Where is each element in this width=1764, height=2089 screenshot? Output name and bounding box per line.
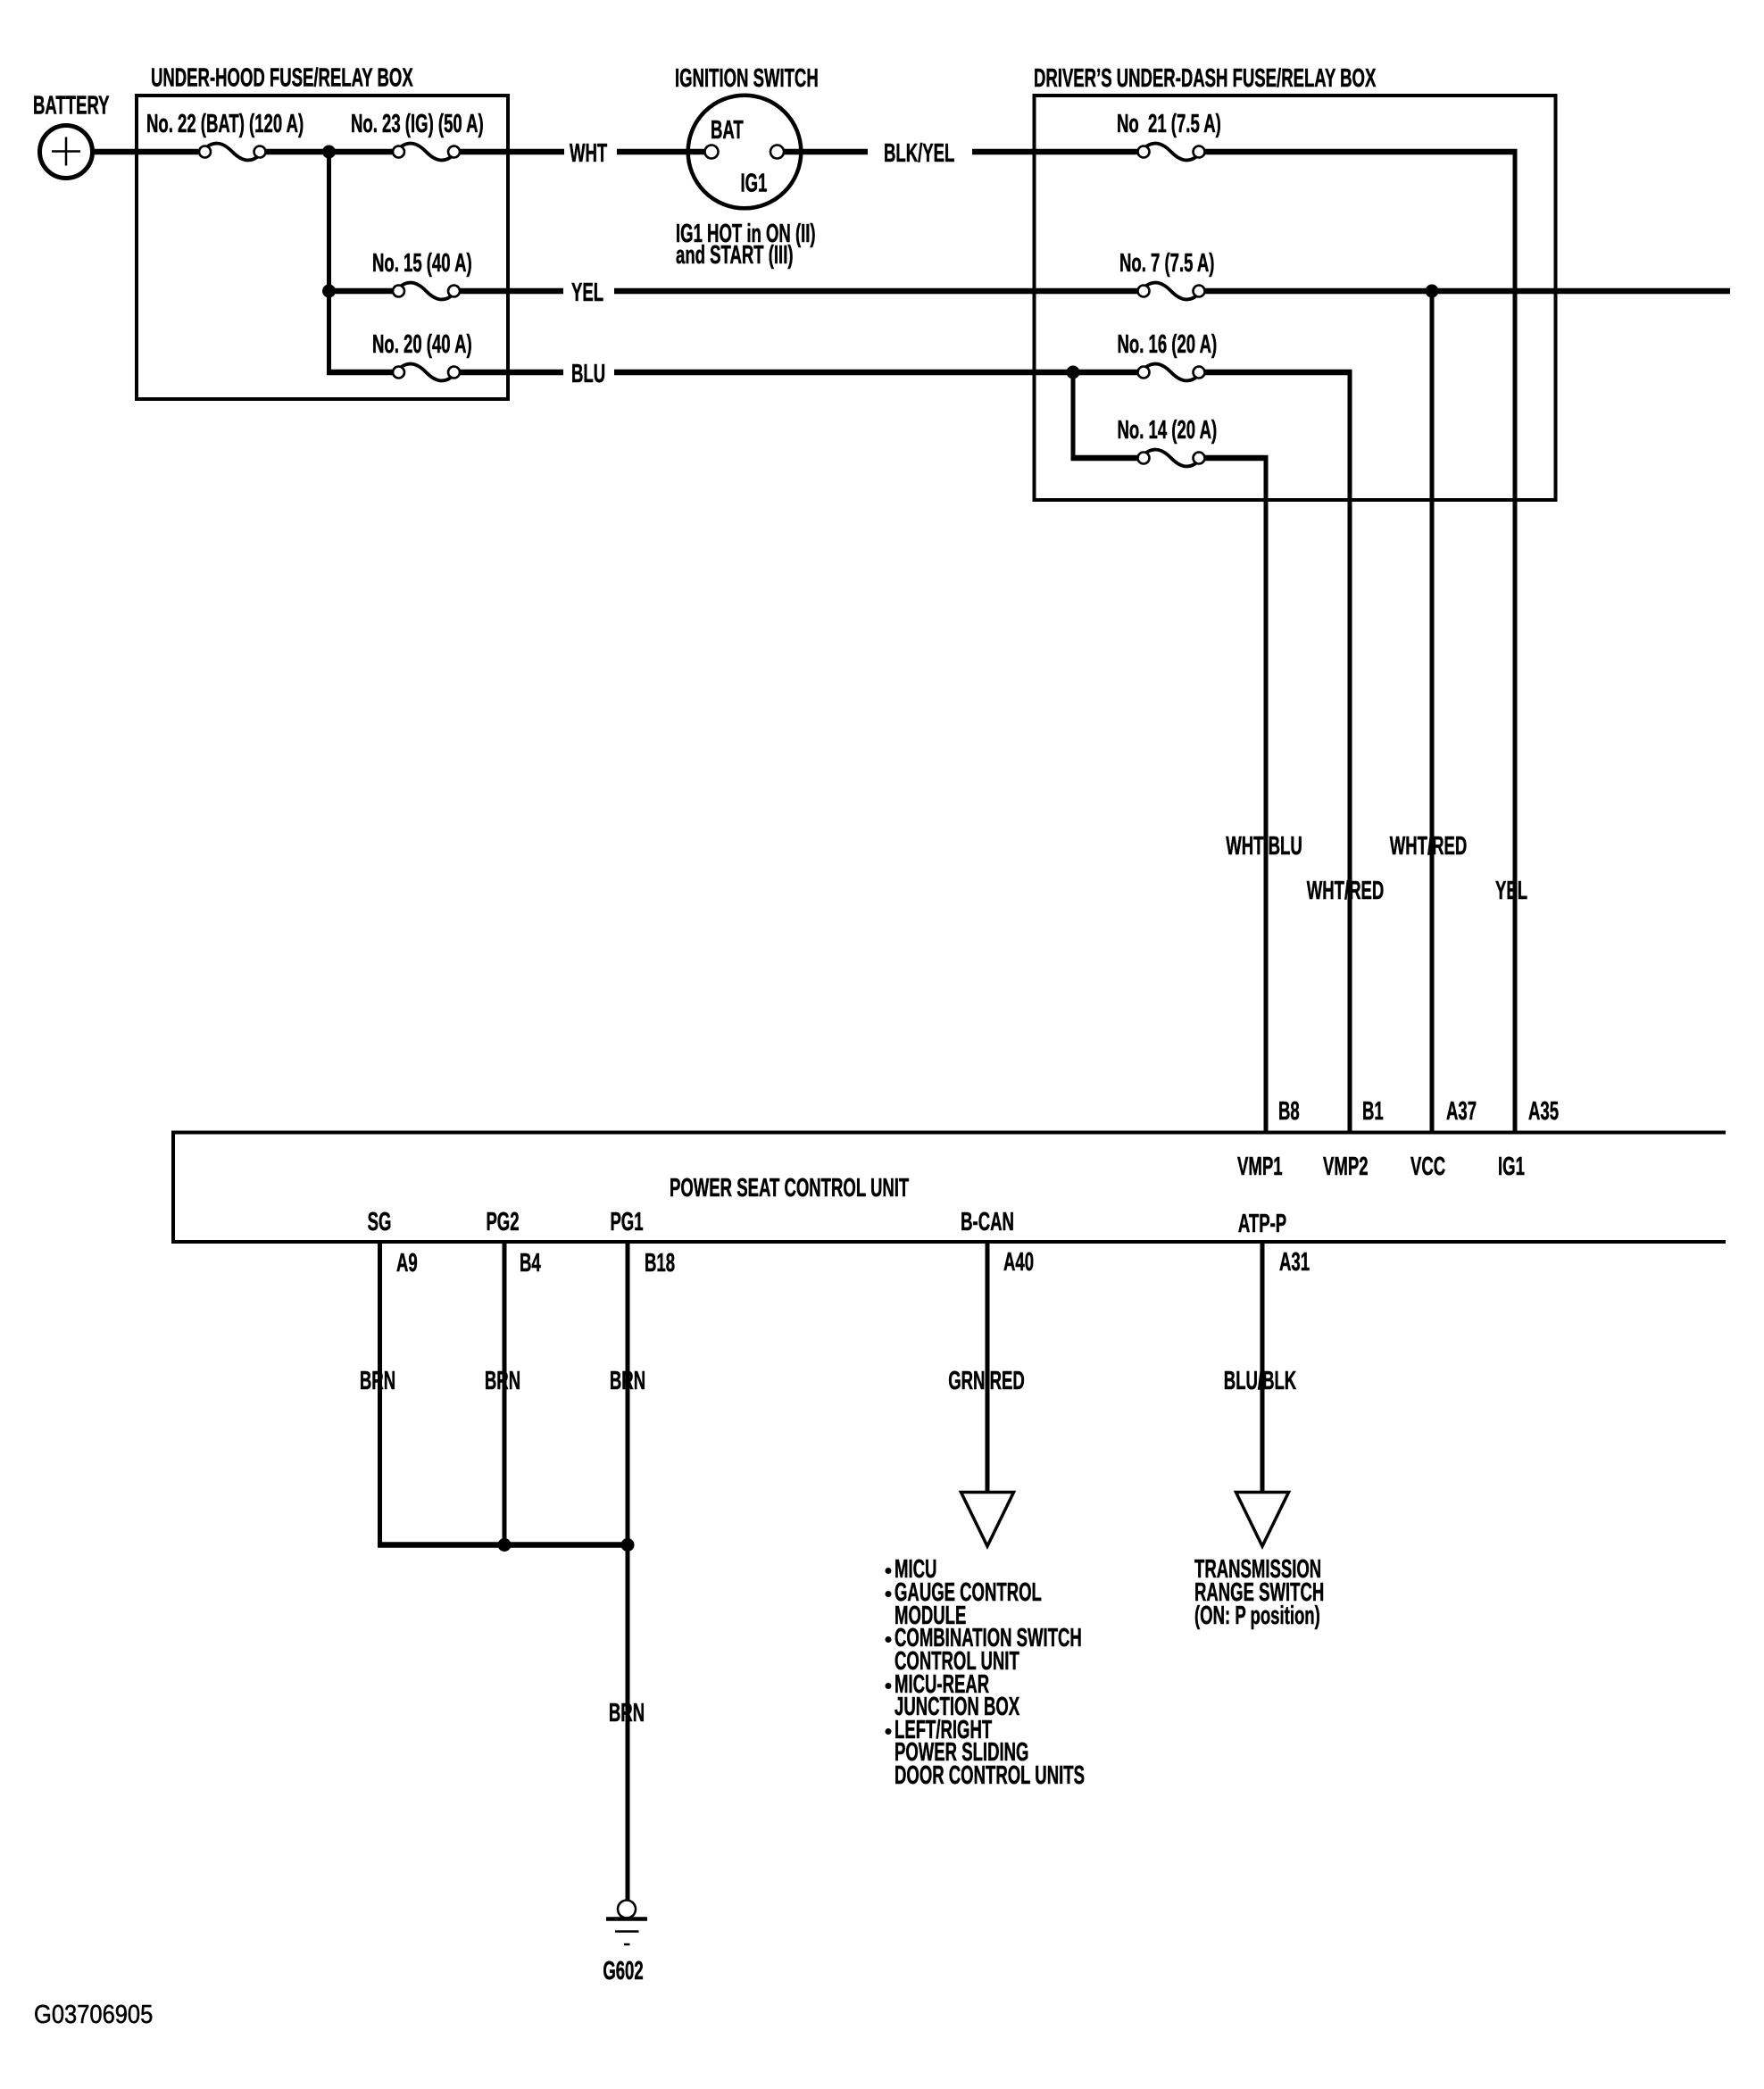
ATP-P destination label TRANSMISSION RANGE SWITCH — [1194, 1555, 1324, 1630]
arrow B-CAN destination — [961, 1493, 1014, 1547]
battery — [40, 126, 93, 179]
svg-text:BATTERY: BATTERY — [33, 91, 110, 120]
svg-text:B-CAN: B-CAN — [961, 1208, 1014, 1236]
wire BLU row into box — [614, 370, 1138, 376]
B-CAN destination list — [886, 1555, 1085, 1790]
svg-text:A31: A31 — [1279, 1248, 1310, 1277]
wire fuse No.22 to fuse No.23 — [265, 149, 393, 155]
svg-text:No. 14 (20 A): No. 14 (20 A) — [1118, 416, 1218, 445]
fuse No.22 — [199, 144, 266, 161]
ground bus wire — [378, 1542, 628, 1548]
fuse No.14 — [1138, 450, 1205, 467]
wire fuse No.20 to BLU — [460, 370, 563, 376]
wire junction to fuse No.15 — [329, 288, 394, 295]
note IG1 HOT in ON and START — [676, 220, 816, 270]
wire SG down — [378, 1242, 382, 1548]
wire IG1 vertical A35 — [1513, 149, 1518, 1132]
junction dot PG1 bus — [621, 1538, 635, 1552]
svg-text:No. 20 (40 A): No. 20 (40 A) — [372, 330, 472, 359]
svg-text:B4: B4 — [520, 1249, 541, 1278]
wire VMP2 vertical B1 — [1348, 370, 1352, 1132]
fuse No.15 — [393, 283, 460, 300]
wire PG1 down to ground — [626, 1242, 630, 1901]
svg-text:WHT/BLU: WHT/BLU — [1226, 832, 1302, 861]
svg-text:VMP1: VMP1 — [1237, 1153, 1283, 1181]
svg-text:IGNITION SWITCH: IGNITION SWITCH — [675, 64, 819, 93]
svg-text:BRN: BRN — [609, 1699, 645, 1727]
svg-text:No. 7 (7.5 A): No. 7 (7.5 A) — [1119, 249, 1214, 278]
fuse No.20 — [393, 364, 460, 381]
svg-text:PG2: PG2 — [486, 1208, 519, 1236]
svg-text:No. 22 (BAT) (120 A): No. 22 (BAT) (120 A) — [146, 110, 304, 138]
wire junction down to No.14 row — [1071, 372, 1076, 461]
svg-text:BLU/BLK: BLU/BLK — [1224, 1367, 1297, 1395]
under-hood fuse/relay box — [137, 96, 508, 399]
wire fuse No.23 to WHT label — [460, 149, 564, 155]
svg-text:IG1: IG1 — [1498, 1153, 1525, 1181]
svg-text:GRN/RED: GRN/RED — [948, 1367, 1025, 1395]
svg-text:BRN: BRN — [360, 1367, 395, 1395]
svg-text:WHT: WHT — [570, 139, 607, 168]
svg-text:A9: A9 — [396, 1249, 418, 1278]
arrow ATP-P destination — [1236, 1493, 1289, 1547]
fuse No.7 — [1138, 283, 1205, 300]
wire BLK/YEL to fuse No.21 — [972, 149, 1138, 155]
driver's under-dash fuse/relay box — [1035, 96, 1556, 500]
wire battery to fuse No.22 — [92, 149, 198, 155]
svg-text:BLK/YEL: BLK/YEL — [884, 139, 954, 168]
wire fuse No.14 to corner — [1204, 455, 1269, 462]
svg-text:WHT/RED: WHT/RED — [1390, 832, 1468, 861]
wire ATP-P down — [1261, 1242, 1265, 1493]
wire VCC vertical A37 — [1430, 291, 1435, 1132]
junction dot VCC branch — [1426, 285, 1439, 298]
wire fuse No.15 to YEL — [460, 288, 563, 295]
ground G602 symbol — [606, 1901, 647, 1945]
fuse No.16 — [1138, 364, 1205, 381]
power seat control unit box — [173, 1133, 1726, 1243]
svg-text:No. 15 (40 A): No. 15 (40 A) — [372, 249, 472, 278]
svg-text:G03706905: G03706905 — [34, 1999, 153, 2028]
wire fuse No.21 to corner — [1204, 149, 1518, 155]
junction dot No.15 branch — [322, 285, 336, 298]
wire VMP1 vertical B8 — [1264, 455, 1269, 1132]
svg-text:VCC: VCC — [1410, 1153, 1445, 1181]
svg-text:G602: G602 — [603, 1957, 643, 1985]
wire YEL row into box — [614, 288, 1138, 295]
junction dot PG2 bus — [498, 1538, 512, 1552]
junction dot main feed — [322, 146, 336, 159]
svg-text:A35: A35 — [1528, 1097, 1559, 1126]
svg-text:YEL: YEL — [571, 279, 603, 307]
svg-text:A37: A37 — [1446, 1097, 1477, 1126]
svg-text:No. 16 (20 A): No. 16 (20 A) — [1118, 330, 1218, 359]
wire fuse No.7 to right edge — [1204, 288, 1730, 295]
svg-text:IG1: IG1 — [741, 169, 768, 197]
svg-text:BAT: BAT — [711, 116, 744, 145]
svg-text:(ON: P position): (ON: P position) — [1194, 1602, 1320, 1630]
wire fuse No.16 to corner — [1204, 370, 1352, 376]
fuse No.23 — [393, 144, 460, 161]
svg-text:SG: SG — [368, 1208, 392, 1236]
wire PG2 down — [503, 1242, 507, 1545]
svg-text:and START (III): and START (III) — [676, 241, 794, 270]
wire WHT to ignition BAT pin — [617, 149, 706, 155]
wire corner to fuse No.20 — [327, 370, 393, 376]
svg-text:VMP2: VMP2 — [1323, 1153, 1369, 1181]
svg-text:No 21 (7.5 A): No 21 (7.5 A) — [1117, 110, 1221, 138]
svg-text:UNDER-HOOD FUSE/RELAY BOX: UNDER-HOOD FUSE/RELAY BOX — [151, 63, 413, 92]
svg-text:YEL: YEL — [1495, 877, 1527, 905]
wire B-CAN down — [986, 1242, 990, 1493]
fuse No.21 — [1138, 144, 1205, 161]
svg-text:WHT/RED: WHT/RED — [1307, 877, 1385, 905]
svg-text:BRN: BRN — [485, 1367, 520, 1395]
svg-text:POWER SEAT CONTROL UNIT: POWER SEAT CONTROL UNIT — [670, 1174, 909, 1203]
wire ignition IG1 pin to BLK/YEL — [782, 149, 868, 155]
svg-text:No. 23 (IG) (50 A): No. 23 (IG) (50 A) — [351, 110, 484, 138]
svg-text:A40: A40 — [1003, 1248, 1034, 1277]
ignition switch — [688, 96, 802, 209]
svg-text:BLU: BLU — [571, 360, 605, 388]
svg-text:B1: B1 — [1362, 1097, 1384, 1126]
svg-text:DOOR CONTROL UNITS: DOOR CONTROL UNITS — [894, 1761, 1085, 1790]
svg-text:DRIVER’S UNDER-DASH FUSE/RELAY: DRIVER’S UNDER-DASH FUSE/RELAY BOX — [1034, 64, 1377, 93]
junction dot No.16 branch — [1067, 366, 1080, 379]
svg-text:PG1: PG1 — [610, 1208, 643, 1236]
svg-text:BRN: BRN — [610, 1367, 645, 1395]
wire junction to fuse No.20 vertical — [327, 152, 331, 375]
svg-text:B18: B18 — [645, 1249, 675, 1278]
svg-text:ATP-P: ATP-P — [1238, 1210, 1286, 1238]
svg-text:B8: B8 — [1278, 1097, 1300, 1126]
wire No.14 row to fuse — [1071, 455, 1139, 462]
